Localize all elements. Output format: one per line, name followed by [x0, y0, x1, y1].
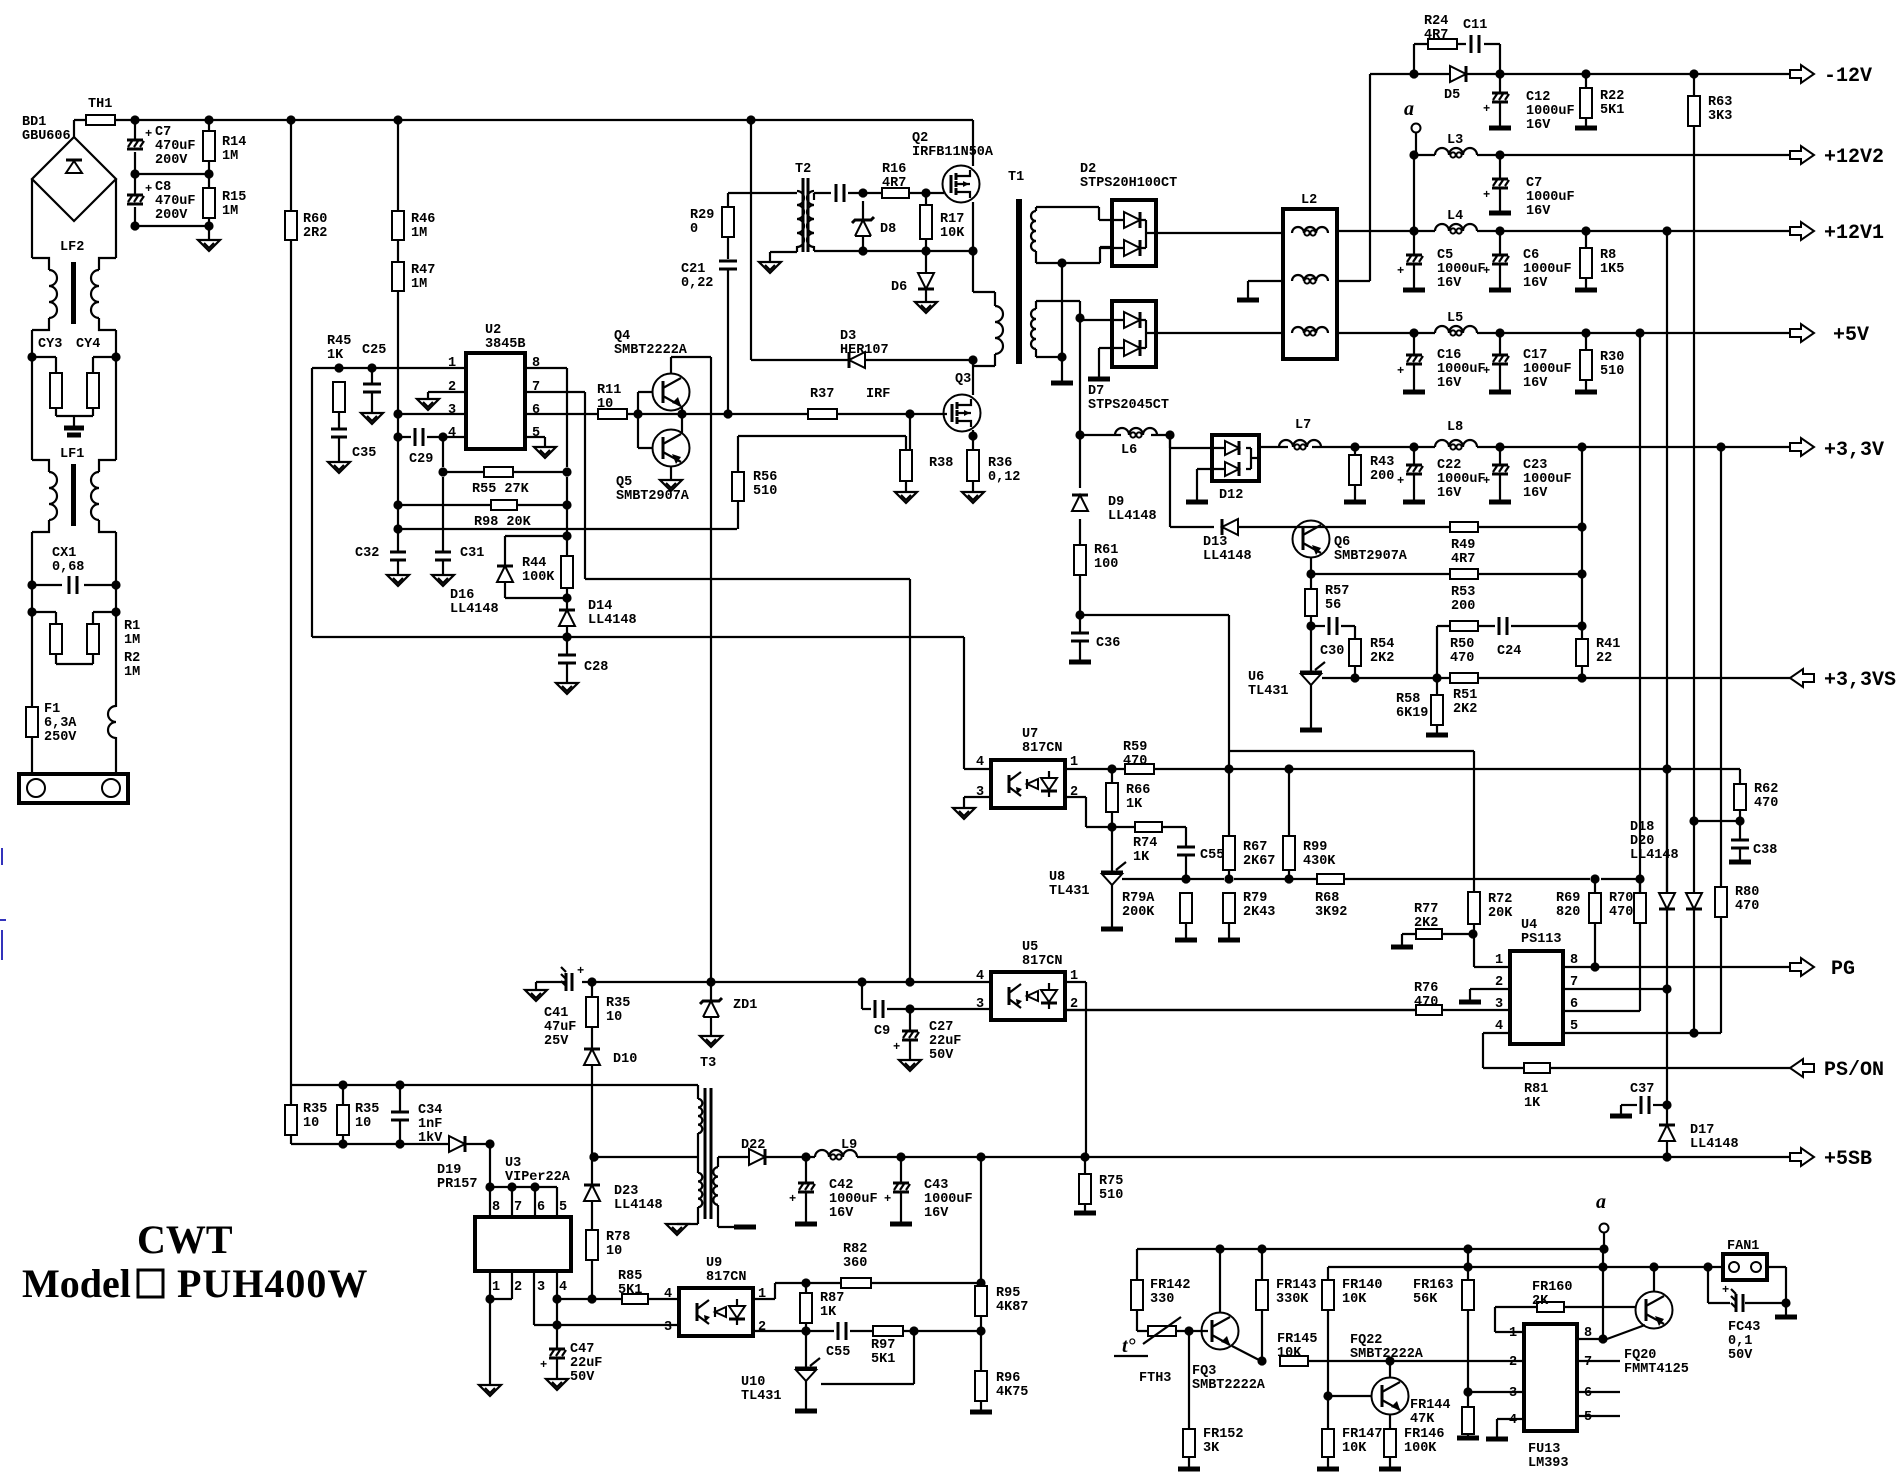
- wire R67 legs: [1228, 769, 1230, 879]
- node FU13 pin8: [1598, 1334, 1607, 1343]
- svg-text:C34: C34: [418, 1103, 442, 1118]
- IC U4 PS113: [1510, 951, 1563, 1044]
- svg-text:TL431: TL431: [1049, 884, 1090, 899]
- svg-text:4: 4: [448, 426, 456, 441]
- wire D3 row: [751, 120, 973, 360]
- svg-text:470: 470: [1735, 899, 1759, 914]
- svg-text:1000uF: 1000uF: [1437, 362, 1486, 377]
- ground U6: [1300, 728, 1322, 733]
- svg-text:R44: R44: [522, 556, 546, 571]
- resistor R53: [1450, 569, 1478, 579]
- svg-text:R30: R30: [1600, 350, 1624, 365]
- wire R29 top: [727, 193, 729, 207]
- capacitor C36: [1079, 615, 1081, 633]
- resistor R15: [203, 188, 215, 218]
- diode D23: [584, 1185, 600, 1201]
- node R66 bot: [1107, 822, 1116, 831]
- svg-text:D14: D14: [588, 599, 612, 614]
- svg-text:4K75: 4K75: [996, 1385, 1028, 1400]
- resistor R98: [491, 500, 517, 510]
- wire U2 pin5: [525, 437, 545, 447]
- diode D5: [1450, 66, 1466, 82]
- svg-text:R53: R53: [1451, 585, 1475, 600]
- svg-text:R46: R46: [411, 212, 435, 227]
- svg-text:C9: C9: [874, 1024, 890, 1039]
- wire R58 legs: [1436, 678, 1438, 733]
- ground R8: [1575, 288, 1597, 293]
- svg-text:C37: C37: [1630, 1082, 1654, 1097]
- ground R36: [962, 492, 984, 503]
- svg-text:C38: C38: [1753, 843, 1777, 858]
- svg-text:FQ22: FQ22: [1350, 1333, 1382, 1348]
- resistor FR152: [1183, 1429, 1195, 1457]
- wire bridge left leg: [31, 179, 33, 258]
- svg-text:+3,3VS: +3,3VS: [1824, 669, 1896, 692]
- wire U2 pin3: [398, 413, 466, 415]
- wire R55 C31 col: [442, 477, 444, 552]
- wire D8 legs: [862, 201, 864, 251]
- ground C12: [1489, 126, 1511, 131]
- svg-text:1: 1: [1070, 755, 1078, 770]
- wire D13 to Q6: [1238, 526, 1450, 528]
- svg-text:D13: D13: [1203, 535, 1227, 550]
- svg-text:R47: R47: [411, 263, 435, 278]
- svg-text:56K: 56K: [1413, 1292, 1438, 1307]
- node 12V1 C6: [1495, 226, 1504, 235]
- wire pri return: [290, 1085, 292, 1144]
- wire R22 col: [1585, 74, 1587, 126]
- svg-text:IRFB11N50A: IRFB11N50A: [912, 145, 994, 160]
- node R41 top: [1577, 621, 1586, 630]
- resistor R66: [1106, 783, 1118, 812]
- svg-text:FR152: FR152: [1203, 1427, 1244, 1442]
- svg-text:+: +: [1483, 264, 1490, 278]
- diode D2a: [1124, 212, 1140, 228]
- wire +5V rail: [1337, 332, 1790, 334]
- svg-text:4: 4: [664, 1287, 672, 1302]
- AC connector plug: [19, 774, 128, 803]
- svg-text:C28: C28: [584, 660, 608, 675]
- node R49 right: [1577, 522, 1586, 531]
- svg-text:0,22: 0,22: [681, 276, 713, 291]
- resistor R67: [1223, 836, 1235, 870]
- node U3 p6: [530, 1182, 539, 1191]
- svg-text:U3: U3: [505, 1156, 521, 1171]
- svg-text:1K: 1K: [1133, 850, 1150, 865]
- svg-text:6,3A: 6,3A: [44, 716, 77, 731]
- capacitor C37: [1621, 1104, 1637, 1106]
- wire D13 col: [1170, 435, 1214, 527]
- wire R77 left: [1402, 934, 1473, 945]
- ground U10: [795, 1409, 817, 1414]
- node FQ3 c: [1215, 1244, 1224, 1253]
- node R75: [1080, 1152, 1089, 1161]
- svg-text:1M: 1M: [124, 665, 140, 680]
- svg-text:C35: C35: [352, 446, 376, 461]
- wire CY bottom: [56, 408, 93, 428]
- svg-text:R35: R35: [606, 996, 630, 1011]
- node R98 left: [393, 500, 402, 509]
- svg-text:10: 10: [597, 397, 613, 412]
- input arrow +3,3VS: [1790, 669, 1814, 687]
- wire FQ3 collector: [1219, 1249, 1221, 1313]
- ground T3: [666, 1224, 688, 1235]
- node FQ3 base: [1184, 1326, 1193, 1335]
- wire FR144 gnd: [1467, 1392, 1469, 1436]
- wire FQ20 emitter: [1607, 1325, 1645, 1339]
- node PG pin8: [1590, 962, 1599, 971]
- wire C23 col: [1499, 447, 1501, 500]
- svg-text:R41: R41: [1596, 637, 1620, 652]
- svg-text:4R7: 4R7: [882, 176, 906, 191]
- node U6 top: [1306, 621, 1315, 630]
- wire R97 right: [903, 1330, 981, 1332]
- wire y615 row: [1080, 615, 1229, 769]
- wire R46 column: [397, 120, 399, 414]
- wire a stub: [1415, 132, 1417, 155]
- node Q6 R53: [1306, 569, 1315, 578]
- wire C12 col: [1499, 74, 1501, 126]
- IC FU13 LM393: [1524, 1324, 1577, 1431]
- node U9 pin2: [801, 1326, 810, 1335]
- wire LF1 to CX1: [32, 532, 116, 585]
- capacitor C17: [1492, 354, 1508, 357]
- fan connector FAN1: [1723, 1254, 1767, 1280]
- wire T1 sec2 top: [1036, 301, 1080, 357]
- svg-text:D12: D12: [1219, 488, 1243, 503]
- node R82 right: [976, 1278, 985, 1287]
- svg-text:3K3: 3K3: [1708, 109, 1732, 124]
- svg-text:56: 56: [1325, 598, 1341, 613]
- wire Q6 emitter: [1310, 557, 1312, 574]
- svg-text:+: +: [1483, 364, 1490, 378]
- svg-text:+: +: [789, 1192, 796, 1206]
- shunt regulator U8 TL431: [1101, 871, 1123, 874]
- wire U2 pin6: [525, 413, 598, 415]
- wire FR152 gnd: [1188, 1457, 1190, 1467]
- svg-text:FR142: FR142: [1150, 1278, 1191, 1293]
- capacitor C11: [1470, 35, 1473, 53]
- node FQ22 base: [1323, 1391, 1332, 1400]
- wire U5 pin1: [1065, 982, 1086, 1157]
- output arrow -12V: [1790, 65, 1814, 83]
- wire U3 pin stubs top: [490, 1187, 557, 1217]
- svg-text:3845B: 3845B: [485, 337, 526, 352]
- svg-text:BD1: BD1: [22, 115, 46, 130]
- svg-text:430K: 430K: [1303, 854, 1336, 869]
- wire fan rail b: [1328, 1266, 1723, 1268]
- node R95 col: [976, 1152, 985, 1161]
- wire R54 bot: [1354, 666, 1356, 680]
- ground FR147: [1317, 1467, 1339, 1472]
- resistor R41: [1576, 639, 1588, 666]
- wire +12V1 down: [1666, 231, 1668, 893]
- wire pin5 row: [1563, 1032, 1721, 1034]
- diode D7a: [1124, 312, 1140, 328]
- resistor R16: [882, 188, 909, 198]
- ground R43: [1344, 500, 1366, 505]
- wire fan rail a: [1137, 1248, 1604, 1250]
- wire R43 col: [1354, 447, 1356, 500]
- ground FR144: [1457, 1436, 1479, 1441]
- wire D12 join: [1246, 447, 1259, 469]
- svg-text:C30: C30: [1320, 644, 1344, 659]
- svg-text:R59: R59: [1123, 740, 1147, 755]
- node C25 top: [367, 363, 376, 372]
- wire C17 col: [1499, 333, 1501, 390]
- svg-text:SMBT2907A: SMBT2907A: [1334, 549, 1408, 564]
- svg-text:6: 6: [532, 403, 540, 418]
- svg-text:R68: R68: [1315, 891, 1339, 906]
- svg-text:FR143: FR143: [1276, 1278, 1317, 1293]
- input arrow PS/ON: [1790, 1059, 1814, 1077]
- svg-text:10: 10: [606, 1010, 622, 1025]
- zener D8: [852, 217, 874, 223]
- node R67 top: [1224, 764, 1233, 773]
- svg-text:C55: C55: [1200, 848, 1224, 863]
- svg-text:22uF: 22uF: [570, 1356, 602, 1371]
- node x910: [905, 977, 914, 986]
- wire R55 col: [442, 437, 444, 467]
- svg-text:D19: D19: [437, 1163, 461, 1178]
- svg-text:3: 3: [448, 403, 456, 418]
- ground U2 pin2: [417, 399, 439, 410]
- wire R36 gnd leg: [972, 481, 974, 492]
- wire R98 row: [398, 504, 567, 506]
- resistor R61: [1074, 545, 1086, 575]
- svg-text:10K: 10K: [1277, 1346, 1302, 1361]
- LF1 right winding: [91, 472, 99, 520]
- svg-text:R17: R17: [940, 212, 964, 227]
- node FQ20 top: [1649, 1262, 1658, 1271]
- capacitor C30: [1311, 625, 1325, 627]
- wire FR160 right: [1564, 1306, 1635, 1308]
- svg-text:Q6: Q6: [1334, 535, 1350, 550]
- inductor L5: [1435, 326, 1477, 333]
- wire Q2 drain: [972, 120, 974, 166]
- node C37: [1662, 1100, 1671, 1109]
- thermistor TH1: [86, 115, 115, 125]
- svg-text:0,12: 0,12: [988, 470, 1020, 485]
- resistor FR140: [1322, 1280, 1334, 1310]
- node R82 left: [801, 1278, 810, 1287]
- resistor R97: [873, 1326, 903, 1336]
- svg-text:+12V1: +12V1: [1824, 222, 1884, 245]
- wire right leg to plug: [115, 612, 117, 707]
- svg-text:GBU606: GBU606: [22, 129, 71, 144]
- svg-text:6K19: 6K19: [1396, 706, 1428, 721]
- inductor L4: [1435, 224, 1477, 231]
- node CY3 top: [27, 352, 36, 361]
- node R55 right: [562, 467, 571, 476]
- wire D18 to C38: [1694, 820, 1740, 822]
- svg-text:50V: 50V: [1728, 1348, 1753, 1363]
- wire bridge right leg: [115, 179, 117, 258]
- node bus T2: [746, 115, 755, 124]
- svg-text:R67: R67: [1243, 840, 1267, 855]
- resistor R81: [1524, 1063, 1550, 1073]
- node pin4 right: [438, 432, 447, 441]
- wire pin7 row: [1563, 988, 1667, 990]
- ground FR146: [1379, 1467, 1401, 1472]
- svg-text:5: 5: [1584, 1410, 1592, 1425]
- resistor R78: [586, 1230, 598, 1260]
- ground R58: [1426, 733, 1448, 738]
- wire pin4 R81: [1483, 1033, 1524, 1068]
- svg-text:100: 100: [1094, 557, 1118, 572]
- svg-text:U2: U2: [485, 323, 501, 338]
- capacitor C27: [902, 1030, 918, 1033]
- svg-text:470: 470: [1609, 905, 1633, 920]
- svg-text:FR140: FR140: [1342, 1278, 1383, 1293]
- node C27 top: [905, 1004, 914, 1013]
- svg-text:C27: C27: [929, 1020, 953, 1035]
- node R14 R15: [204, 169, 213, 178]
- resistor R46: [392, 211, 404, 240]
- coupling capacitor: [835, 184, 838, 202]
- capacitor C28: [566, 637, 568, 655]
- node C47 top: [552, 1320, 561, 1329]
- node C36 top: [1075, 610, 1084, 619]
- svg-text:4R7: 4R7: [1451, 552, 1475, 567]
- svg-text:+5SB: +5SB: [1824, 1148, 1872, 1171]
- wire T1 sec1 bot: [1036, 262, 1062, 264]
- resistor R69: [1589, 893, 1601, 923]
- wire FQ20 collector: [1653, 1267, 1655, 1291]
- svg-text:R74: R74: [1133, 836, 1157, 851]
- node R99 bot: [1284, 874, 1293, 883]
- resistor R47: [392, 262, 404, 291]
- wire D16 loop top: [505, 535, 567, 537]
- svg-text:C47: C47: [570, 1342, 594, 1357]
- svg-text:FAN1: FAN1: [1727, 1239, 1759, 1254]
- wire fan right: [1767, 1267, 1786, 1315]
- svg-text:1000uF: 1000uF: [1523, 262, 1572, 277]
- wire U10 ref: [821, 1331, 914, 1384]
- svg-text:16V: 16V: [829, 1206, 854, 1221]
- svg-text:0: 0: [690, 222, 698, 237]
- chassis L2: [1237, 298, 1259, 303]
- resistor R70: [1634, 893, 1646, 923]
- transistor Q2: [943, 166, 980, 203]
- wire Q3 drain: [972, 360, 974, 395]
- wire +3.3V rail: [1259, 446, 1790, 448]
- resistor R80: [1715, 887, 1727, 917]
- wire R45 to C35: [338, 412, 340, 429]
- svg-text:5K1: 5K1: [1600, 103, 1624, 118]
- output arrow +5SB: [1790, 1148, 1814, 1166]
- wire R75 gnd: [1084, 1204, 1086, 1211]
- resistor R29: [722, 207, 734, 237]
- ground C7b: [1489, 211, 1511, 216]
- zener ZD1: [700, 998, 722, 1004]
- svg-text:R79A: R79A: [1122, 891, 1155, 906]
- diode D18: [1686, 893, 1702, 909]
- resistor R59: [1125, 764, 1154, 774]
- node pin4 left: [393, 432, 402, 441]
- svg-text:360: 360: [843, 1256, 867, 1271]
- wire centertap: [1061, 263, 1063, 381]
- node R97 right: [909, 1326, 918, 1335]
- wire y751 branch: [1229, 751, 1474, 892]
- svg-text:3: 3: [1509, 1386, 1517, 1401]
- node D18 row: [1689, 816, 1698, 825]
- svg-text:FR145: FR145: [1277, 1332, 1318, 1347]
- node R41 bot: [1577, 673, 1586, 682]
- shunt regulator U10 TL431: [795, 1367, 817, 1370]
- svg-text:R60: R60: [303, 212, 327, 227]
- bridge rectifier BD1: [32, 137, 116, 221]
- resistor R24: [1428, 39, 1457, 49]
- svg-text:7: 7: [1570, 975, 1578, 990]
- svg-text:2K2: 2K2: [1370, 651, 1394, 666]
- wire R82 row: [775, 1282, 841, 1284]
- wire R85 to U9: [648, 1298, 679, 1300]
- resistor R14: [203, 131, 215, 161]
- ground FU13: [1486, 1437, 1508, 1442]
- optocoupler U7 817CN: [991, 760, 1065, 808]
- svg-text:4: 4: [1495, 1019, 1503, 1034]
- svg-text:C41: C41: [544, 1006, 568, 1021]
- svg-text:R43: R43: [1370, 455, 1394, 470]
- resistor R35 c: [586, 997, 598, 1027]
- svg-text:3K: 3K: [1203, 1441, 1220, 1456]
- wire U3 pin4: [556, 1271, 558, 1299]
- svg-text:D5: D5: [1444, 88, 1460, 103]
- ground R77: [1391, 945, 1413, 950]
- resistor R38: [900, 450, 912, 481]
- capacitor C55 fb: [1177, 846, 1195, 849]
- svg-text:+12V2: +12V2: [1824, 146, 1884, 169]
- capacitor C24: [1498, 617, 1501, 635]
- svg-text:SMBT2222A: SMBT2222A: [1192, 1378, 1266, 1393]
- capacitor C23: [1492, 464, 1508, 467]
- wire +12V2 rail: [1414, 154, 1790, 156]
- wire D2 join: [1140, 220, 1156, 248]
- wire T3 prim top: [697, 1085, 699, 1099]
- wire PG row: [1563, 966, 1790, 968]
- resistor FR160: [1537, 1302, 1564, 1312]
- wire R61 legs: [1079, 537, 1081, 615]
- svg-text:16V: 16V: [1437, 276, 1462, 291]
- node FU13 pin3: [1463, 1387, 1472, 1396]
- diode D2b: [1124, 240, 1140, 256]
- svg-text:Model: Model: [22, 1261, 131, 1306]
- wire R56 bottom: [737, 501, 739, 529]
- wire R78 leg: [591, 1260, 593, 1299]
- svg-text:C16: C16: [1437, 348, 1461, 363]
- wire U2 pin8: [525, 368, 567, 467]
- svg-text:10K: 10K: [1342, 1292, 1367, 1307]
- node U3 p7: [507, 1182, 516, 1191]
- svg-text:10: 10: [606, 1244, 622, 1259]
- wire U3 pin3: [534, 1271, 679, 1325]
- wire +3,3VS row: [1322, 677, 1790, 679]
- wire R79 gnd: [1228, 923, 1230, 938]
- wire D16 loop bot: [505, 597, 567, 599]
- svg-text:1M: 1M: [124, 633, 140, 648]
- node R72 R77: [1468, 929, 1477, 938]
- svg-text:CY3: CY3: [38, 337, 62, 352]
- node D6 top: [921, 246, 930, 255]
- ground R22: [1575, 126, 1597, 131]
- node 12V1 R8: [1581, 226, 1590, 235]
- node U3 p1: [485, 1294, 494, 1303]
- wire R50 row: [1437, 626, 1582, 678]
- node R45 top: [334, 363, 343, 372]
- wire T3 sec bot: [718, 1205, 745, 1227]
- svg-text:1000uF: 1000uF: [1526, 104, 1575, 119]
